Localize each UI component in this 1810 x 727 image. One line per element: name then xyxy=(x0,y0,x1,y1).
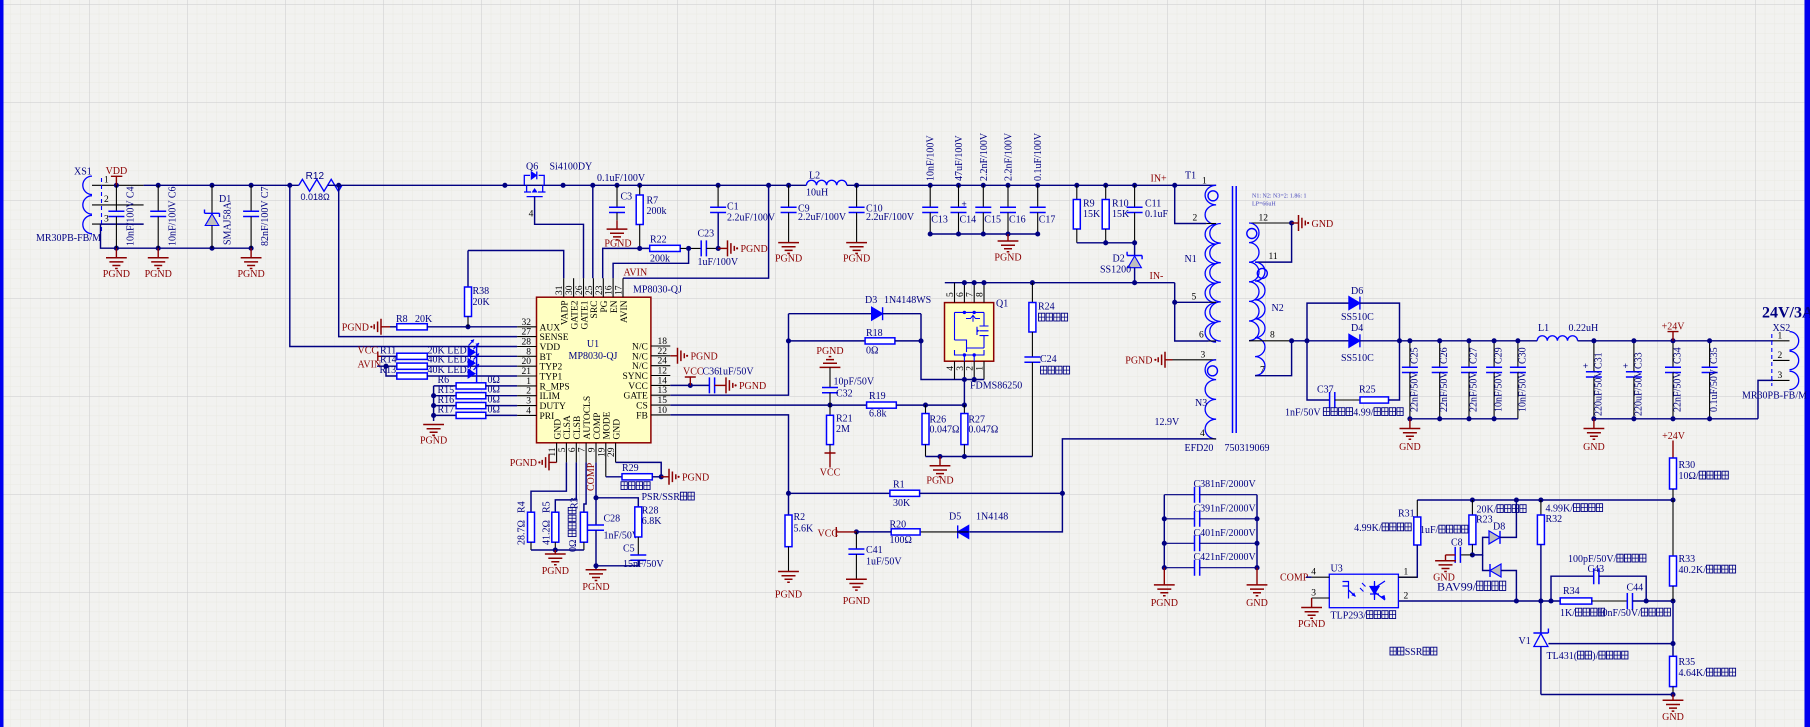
wire PG net R22 row xyxy=(603,248,650,278)
svg-text:2.2uF/100V: 2.2uF/100V xyxy=(798,212,847,223)
ground PGND under Y-caps left xyxy=(1163,568,1165,585)
svg-text:15K: 15K xyxy=(1083,209,1101,220)
svg-text:C11: C11 xyxy=(1145,199,1161,210)
svg-text:PGND: PGND xyxy=(1125,356,1152,367)
svg-text:TYP2: TYP2 xyxy=(540,363,563,373)
svg-text:R9: R9 xyxy=(1083,199,1095,210)
svg-text:PGND: PGND xyxy=(542,566,569,577)
svg-text:5.6K: 5.6K xyxy=(794,524,815,535)
svg-text:4.64K/: 4.64K/ xyxy=(1679,668,1707,679)
ground PGND cap bank xyxy=(1007,234,1009,241)
resistor R28 6.8K xyxy=(635,507,642,537)
transformer T1 secondary N2 xyxy=(1249,222,1292,224)
resistor R18 0ohm xyxy=(789,340,866,342)
svg-text:C391nF/2000V: C391nF/2000V xyxy=(1194,503,1257,514)
svg-text:10nF/100V C6: 10nF/100V C6 xyxy=(167,186,178,246)
svg-text:C401nF/2000V: C401nF/2000V xyxy=(1194,528,1257,539)
svg-text:8: 8 xyxy=(976,292,986,297)
svg-text:22: 22 xyxy=(658,347,668,357)
svg-text:200k: 200k xyxy=(647,206,667,217)
capacitor C36 1uF/50V xyxy=(709,377,714,393)
capacitor C6 xyxy=(157,185,159,211)
svg-text:R17: R17 xyxy=(438,405,455,416)
Q1 top pins 5 6 7 8 xyxy=(954,283,956,303)
svg-text:PGND: PGND xyxy=(342,322,369,333)
svg-text:SMAJ58A: SMAJ58A xyxy=(223,201,234,245)
power port VDD xyxy=(111,176,122,185)
svg-text:C24: C24 xyxy=(1040,354,1057,365)
svg-text:C37: C37 xyxy=(1317,385,1334,396)
ground GND left of C8 xyxy=(1446,555,1456,561)
svg-text:15nF/50V: 15nF/50V xyxy=(623,559,664,570)
svg-text:COMP: COMP xyxy=(1280,573,1309,584)
svg-text:C16: C16 xyxy=(1009,215,1026,226)
ground PGND under U3 pin3 xyxy=(1311,598,1313,608)
svg-text:VCC: VCC xyxy=(820,467,841,478)
ground PGND at U1 pin11 xyxy=(549,461,557,463)
svg-text:24: 24 xyxy=(658,357,668,367)
svg-text:R18: R18 xyxy=(866,328,883,339)
ground PGND under C4 xyxy=(115,248,117,258)
svg-text:SS510C: SS510C xyxy=(1341,312,1374,323)
power port VCC under R21 xyxy=(825,451,836,468)
resistor R4 28.7ohm xyxy=(528,512,535,542)
svg-text:N/C: N/C xyxy=(632,362,648,372)
svg-text:1K/: 1K/ xyxy=(1560,608,1575,619)
svg-text:C36: C36 xyxy=(703,367,720,378)
svg-text:PGND: PGND xyxy=(420,436,447,447)
svg-text:VCC: VCC xyxy=(818,529,839,540)
resistor R38 20K xyxy=(467,251,469,288)
svg-text:0.1uF: 0.1uF xyxy=(1145,209,1169,220)
wire GND pin29 to R29 right xyxy=(616,462,662,476)
svg-text:PGND: PGND xyxy=(103,269,130,280)
svg-text:10Ω/: 10Ω/ xyxy=(1679,471,1699,482)
svg-text:D2: D2 xyxy=(1113,254,1125,265)
svg-text:GND: GND xyxy=(612,419,622,440)
wire VDD sense leg to U1 pin28 xyxy=(290,185,517,346)
svg-text:C34: C34 xyxy=(1673,347,1684,364)
wire XS2 pin3 to ground bus xyxy=(1758,380,1773,418)
svg-text:+24V: +24V xyxy=(1662,322,1686,333)
svg-text:1: 1 xyxy=(1404,568,1409,578)
Q1 bottom pins 4 3 2 1 xyxy=(954,361,956,379)
svg-text:10nF/100V: 10nF/100V xyxy=(926,135,937,181)
svg-text:0.047Ω: 0.047Ω xyxy=(968,424,998,435)
transistor Q6 Si4100DY xyxy=(524,175,544,185)
svg-text:R30: R30 xyxy=(1679,460,1696,471)
ground PGND under C7 xyxy=(250,248,252,258)
svg-text:10pF/50V: 10pF/50V xyxy=(834,377,875,388)
svg-text:R38: R38 xyxy=(473,286,490,297)
svg-text:+: + xyxy=(1583,361,1588,371)
svg-text:1uF/50V: 1uF/50V xyxy=(718,367,754,378)
svg-text:24V/3A: 24V/3A xyxy=(1762,305,1810,322)
capacitor C27 22nF/50V xyxy=(1468,341,1470,368)
U1 right pins xyxy=(651,345,670,347)
capacitor C5 15nF/50V xyxy=(637,537,639,555)
svg-text:16: 16 xyxy=(605,285,615,295)
ground PGND at U1 pin22 xyxy=(670,355,677,357)
capacitor C42 1nF/2000V xyxy=(1164,567,1194,569)
wire bottom ground row xyxy=(1541,694,1673,696)
wire C23 node up to C1 xyxy=(717,213,719,249)
svg-text:2.2nF/100V: 2.2nF/100V xyxy=(1004,132,1015,181)
svg-text:PRI: PRI xyxy=(540,412,555,422)
svg-text:32: 32 xyxy=(522,318,532,328)
capacitor C38 1nF/2000V xyxy=(1164,494,1194,496)
ground PGND right of C36 xyxy=(726,377,733,393)
resistor R8 20K xyxy=(390,326,397,328)
wire T1 pin4 to D5 xyxy=(969,439,1208,532)
svg-text:22nF/50V: 22nF/50V xyxy=(1409,371,1420,412)
svg-text:C26: C26 xyxy=(1439,347,1450,364)
resistor R2 5.6K xyxy=(785,515,792,547)
svg-text:TLP293/: TLP293/ xyxy=(1331,611,1367,622)
svg-text:R_MPS: R_MPS xyxy=(540,382,570,392)
resistor R32 4.99K xyxy=(1540,500,1542,515)
svg-text:2: 2 xyxy=(104,195,109,205)
svg-text:R22: R22 xyxy=(650,235,667,246)
svg-text:12: 12 xyxy=(658,367,668,377)
svg-text:GND: GND xyxy=(1399,442,1421,453)
svg-text:U1: U1 xyxy=(587,339,599,350)
svg-text:0.1uF/100V: 0.1uF/100V xyxy=(597,173,646,184)
wire Q1 source to sense resistors xyxy=(963,380,965,406)
svg-text:4: 4 xyxy=(1311,568,1316,578)
svg-text:12: 12 xyxy=(1259,214,1269,224)
svg-text:C8: C8 xyxy=(1451,538,1463,549)
wire XS1 pin3 to PGND bus xyxy=(101,224,252,248)
svg-text:82nF/100V C7: 82nF/100V C7 xyxy=(260,186,271,246)
svg-text:GND: GND xyxy=(553,419,563,440)
wire R38 to U1 pin31 xyxy=(468,251,564,279)
svg-text:100Ω: 100Ω xyxy=(890,535,912,546)
svg-text:2.2nF/100V: 2.2nF/100V xyxy=(979,132,990,181)
svg-text:PGND: PGND xyxy=(775,253,802,264)
capacitor C43 100pF branch xyxy=(1551,576,1594,601)
svg-text:9: 9 xyxy=(588,447,598,452)
svg-text:4.99/: 4.99/ xyxy=(1353,408,1374,419)
capacitor C33 220uF/50V xyxy=(1633,341,1635,372)
ground PGND under C28 xyxy=(586,570,607,581)
svg-text:R7: R7 xyxy=(647,196,659,207)
svg-text:CLSA: CLSA xyxy=(563,415,573,439)
wire sense resistor ground bus xyxy=(926,456,1033,458)
svg-text:D4: D4 xyxy=(1351,323,1363,334)
capacitor C9 2.2uF/100V xyxy=(786,183,791,188)
IC U1 MP8030-QJ body xyxy=(537,297,651,443)
wire secondary output row xyxy=(1292,340,1349,342)
svg-text:AVIN: AVIN xyxy=(624,268,648,279)
Q1 internal mosfet xyxy=(955,312,985,340)
svg-text:GATE1: GATE1 xyxy=(580,300,590,329)
diode D5 1N4148 xyxy=(958,525,969,538)
svg-text:R34: R34 xyxy=(1563,586,1580,597)
svg-text:D3: D3 xyxy=(865,295,877,306)
power port VCC at R20 xyxy=(836,527,856,537)
capacitor C17 0.1uF/100V xyxy=(1035,183,1040,188)
svg-text:25: 25 xyxy=(585,285,595,295)
diode D8 lower BAV99 xyxy=(1483,555,1490,571)
svg-text:47uF/100V: 47uF/100V xyxy=(954,135,965,181)
svg-text:XS1: XS1 xyxy=(74,167,92,178)
svg-text:10nF/50V: 10nF/50V xyxy=(1494,371,1505,412)
svg-text:12.9V: 12.9V xyxy=(1155,417,1181,428)
wire 24V rail left group xyxy=(1410,340,1537,342)
svg-text:D8: D8 xyxy=(1493,522,1505,533)
svg-text:C25: C25 xyxy=(1409,347,1420,364)
svg-text:3: 3 xyxy=(1311,589,1316,599)
wire cap bank ground bus xyxy=(930,233,1037,235)
svg-text:PGND: PGND xyxy=(994,253,1021,264)
LED stack LED1 LED2 LED3 xyxy=(468,347,476,358)
snubber C37 R25 branch xyxy=(1307,341,1330,400)
svg-text:1uF/50V: 1uF/50V xyxy=(866,557,902,568)
svg-text:R35: R35 xyxy=(1679,657,1696,668)
svg-text:PGND: PGND xyxy=(682,472,709,483)
svg-text:VDD: VDD xyxy=(106,166,128,177)
wire VDD input rail xyxy=(144,184,299,186)
svg-text:EN: EN xyxy=(610,300,620,313)
svg-text:SSR: SSR xyxy=(1405,647,1423,658)
svg-text:C13: C13 xyxy=(931,215,948,226)
ground PGND under R17 rail xyxy=(423,425,444,436)
resistor R31 4.99K xyxy=(1416,500,1418,517)
svg-text:7: 7 xyxy=(1260,366,1265,376)
svg-text:5: 5 xyxy=(1192,293,1197,303)
transformer core xyxy=(1233,186,1237,433)
resistor R12 0.018ohm xyxy=(299,179,342,191)
svg-text:N/C: N/C xyxy=(632,343,648,353)
svg-text:2: 2 xyxy=(1778,351,1783,361)
ground PGND at T1 pin3 xyxy=(1165,359,1173,361)
capacitor C34 22nF/50V xyxy=(1672,341,1674,368)
capacitor C41 1uF/50V xyxy=(855,532,857,549)
diode D2 SS1200 xyxy=(1134,243,1136,256)
svg-text:LP=66uH: LP=66uH xyxy=(1252,202,1276,208)
svg-text:4: 4 xyxy=(1200,429,1205,439)
svg-text:6.8k: 6.8k xyxy=(869,409,887,420)
capacitor C15 2.2nF/100V xyxy=(981,183,986,188)
svg-text:U3: U3 xyxy=(1331,564,1343,575)
svg-text:VDD: VDD xyxy=(540,343,561,353)
svg-text:750319069: 750319069 xyxy=(1225,443,1270,454)
svg-text:2M: 2M xyxy=(836,424,850,435)
ground PGND under R2 xyxy=(778,572,799,583)
svg-text:2: 2 xyxy=(1193,214,1198,224)
svg-text:GATE2: GATE2 xyxy=(570,300,580,329)
svg-text:SYNC: SYNC xyxy=(622,372,647,382)
capacitor C8 1uF xyxy=(1460,554,1472,556)
svg-text:C17: C17 xyxy=(1039,215,1056,226)
svg-text:40.2K/: 40.2K/ xyxy=(1679,565,1707,576)
capacitor C3 0.1uF/100V xyxy=(614,183,619,188)
svg-text:220uF/50V: 220uF/50V xyxy=(1633,370,1644,416)
svg-text:6: 6 xyxy=(1199,331,1204,341)
shunt regulator V1 TL431 xyxy=(1540,601,1542,633)
capacitor C4 xyxy=(115,185,117,211)
svg-text:COMP: COMP xyxy=(593,413,603,440)
svg-text:3: 3 xyxy=(104,215,109,225)
svg-text:3: 3 xyxy=(1778,371,1783,381)
ground PGND under C9 xyxy=(778,243,799,254)
capacitor C26 22nF/50V xyxy=(1439,341,1441,368)
U1 top pins xyxy=(563,278,565,297)
U1 left pins xyxy=(517,326,536,328)
svg-text:1: 1 xyxy=(1778,332,1783,342)
svg-text:Q6: Q6 xyxy=(526,162,538,173)
svg-text:GND: GND xyxy=(1662,712,1684,723)
ground PGND under C6 xyxy=(157,248,159,258)
wire rail R12 to Q6 xyxy=(328,184,807,186)
svg-text:FB: FB xyxy=(636,411,648,421)
TVS diode D1 SMAJ58A xyxy=(211,185,213,213)
svg-text:R4: R4 xyxy=(517,501,528,513)
wire 24V rail right group xyxy=(1578,340,1773,342)
resistor R19 6.8k xyxy=(867,402,897,408)
svg-text:MR30PB-FB/M: MR30PB-FB/M xyxy=(36,233,101,244)
svg-text:10: 10 xyxy=(658,406,668,416)
svg-text:BT: BT xyxy=(540,353,552,363)
svg-text:4: 4 xyxy=(526,406,531,416)
connector XS2 xyxy=(1790,332,1799,350)
svg-text:PGND: PGND xyxy=(582,582,609,593)
svg-text:1N4148: 1N4148 xyxy=(976,512,1008,523)
svg-text:+: + xyxy=(962,199,967,209)
svg-text:N1: N2: N3=2: 1.86: 1: N1: N2: N3=2: 1.86: 1 xyxy=(1252,194,1307,200)
svg-text:1nF/50V: 1nF/50V xyxy=(1285,408,1321,419)
svg-text:1uF/: 1uF/ xyxy=(1420,525,1439,536)
svg-text:11: 11 xyxy=(1269,252,1278,262)
wire AUTOCLS to R3 xyxy=(584,462,586,512)
svg-text:6: 6 xyxy=(956,292,966,297)
capacitor C7 xyxy=(250,185,252,211)
wire rail L2 to T1 xyxy=(847,184,1216,186)
wire SENSE leg to U1 pin27 xyxy=(339,185,517,336)
ground PGND under C10 xyxy=(846,243,867,254)
svg-text:21: 21 xyxy=(522,367,532,377)
svg-text:0.018Ω: 0.018Ω xyxy=(301,192,331,202)
capacitor C10 2.2uF/100V xyxy=(854,183,859,188)
svg-text:28.7Ω: 28.7Ω xyxy=(517,520,528,545)
svg-text:1: 1 xyxy=(104,176,109,186)
svg-text:PGND: PGND xyxy=(510,458,537,469)
svg-text:N2: N2 xyxy=(1272,303,1284,314)
svg-text:22nF/50V: 22nF/50V xyxy=(1469,371,1480,412)
resistor R14 40K xyxy=(377,365,397,367)
svg-text:SS1200: SS1200 xyxy=(1100,265,1131,276)
svg-text:C1: C1 xyxy=(727,202,739,213)
diode D6 SS510C xyxy=(1307,303,1349,341)
wire Q1 source bus xyxy=(955,379,985,381)
svg-text:2.2uF/100V: 2.2uF/100V xyxy=(866,212,915,223)
svg-text:0.047Ω: 0.047Ω xyxy=(930,424,960,435)
svg-text:40K LED2: 40K LED2 xyxy=(428,355,472,366)
svg-text:PGND: PGND xyxy=(926,475,953,486)
svg-text:220uF/50V: 220uF/50V xyxy=(1593,370,1604,416)
wire gate to Q1 pin4 xyxy=(921,314,955,380)
svg-text:Si4100DY: Si4100DY xyxy=(550,162,593,173)
sheet border right xyxy=(1805,0,1810,727)
capacitor C30 10nF/50V xyxy=(1517,341,1519,368)
wire MODE to R29 xyxy=(606,476,622,478)
resistor R13 40K xyxy=(386,366,397,376)
svg-text:0.1uF/50V: 0.1uF/50V xyxy=(1709,368,1720,412)
svg-text:20K: 20K xyxy=(415,314,433,325)
svg-text:TL431(: TL431( xyxy=(1547,651,1578,662)
svg-text:8: 8 xyxy=(526,347,531,357)
ground GND under C25 xyxy=(1409,419,1411,429)
svg-text:PGND: PGND xyxy=(775,590,802,601)
svg-text:29: 29 xyxy=(607,447,617,457)
diode D8 upper BAV99 xyxy=(1472,537,1489,555)
U1 bottom pins xyxy=(556,443,558,463)
svg-text:1: 1 xyxy=(526,377,531,387)
svg-text:C32: C32 xyxy=(836,389,853,400)
svg-text:R8: R8 xyxy=(396,314,408,325)
svg-text:+24V: +24V xyxy=(1662,431,1686,442)
capacitor C31 220uF/50V xyxy=(1593,341,1595,372)
svg-text:R20: R20 xyxy=(890,519,907,530)
capacitor C29 10nF/50V xyxy=(1493,341,1495,368)
svg-text:15: 15 xyxy=(658,396,668,406)
capacitor C44 10nF xyxy=(1627,593,1632,609)
resistor R23 20K xyxy=(1471,500,1473,515)
ground PGND under C41 xyxy=(846,579,867,590)
svg-text:4: 4 xyxy=(946,366,956,371)
svg-text:1: 1 xyxy=(976,366,986,371)
wire V1 ref to divider xyxy=(1548,643,1673,645)
resistor R22 200k xyxy=(650,245,681,251)
resistor R26 0.047ohm xyxy=(925,405,927,413)
resistor R7 200k xyxy=(637,183,642,188)
svg-text:PGND: PGND xyxy=(1298,619,1325,630)
svg-text:0.22uH: 0.22uH xyxy=(1569,323,1599,334)
resistor R20 100ohm xyxy=(891,529,920,535)
svg-text:22nF/50V: 22nF/50V xyxy=(1439,371,1450,412)
ground PGND right of C23 xyxy=(718,247,727,249)
wire ground bus right group xyxy=(1594,418,1758,420)
svg-text:MR30PB-FB/M: MR30PB-FB/M xyxy=(1742,391,1807,402)
svg-text:IN+: IN+ xyxy=(1151,174,1168,185)
resistor R27 0.047ohm xyxy=(963,405,965,413)
Y-capacitor chain rails xyxy=(1163,495,1165,568)
wire AVIN leg from rail to U1 pin17 xyxy=(623,185,769,278)
wire R9 R10 C11 bottoms xyxy=(1077,242,1135,244)
svg-text:N/C: N/C xyxy=(632,352,648,362)
svg-text:8: 8 xyxy=(1270,331,1275,341)
zero ohm resistors R6 R15 R16 R17 xyxy=(433,386,435,421)
svg-text:MP8030-QJ: MP8030-QJ xyxy=(633,285,682,296)
ground GND under Y-caps right xyxy=(1256,568,1258,585)
svg-text:C33: C33 xyxy=(1633,352,1644,369)
svg-text:PGND: PGND xyxy=(843,596,870,607)
capacitor C13 10nF/100V xyxy=(928,183,933,188)
capacitor C32 10pF/50V xyxy=(822,388,838,393)
svg-text:R12: R12 xyxy=(306,171,325,182)
svg-text:2: 2 xyxy=(966,366,976,371)
wire CS row U1 pin15 xyxy=(670,404,866,406)
optocoupler U3 TLP293 xyxy=(1329,574,1398,608)
svg-text:C5: C5 xyxy=(623,544,635,555)
svg-text:17: 17 xyxy=(615,285,625,295)
connector XS1 xyxy=(36,167,144,245)
svg-text:31: 31 xyxy=(555,285,565,295)
svg-text:+: + xyxy=(1623,361,1628,371)
svg-text:3: 3 xyxy=(956,366,966,371)
svg-text:GND: GND xyxy=(1583,442,1605,453)
